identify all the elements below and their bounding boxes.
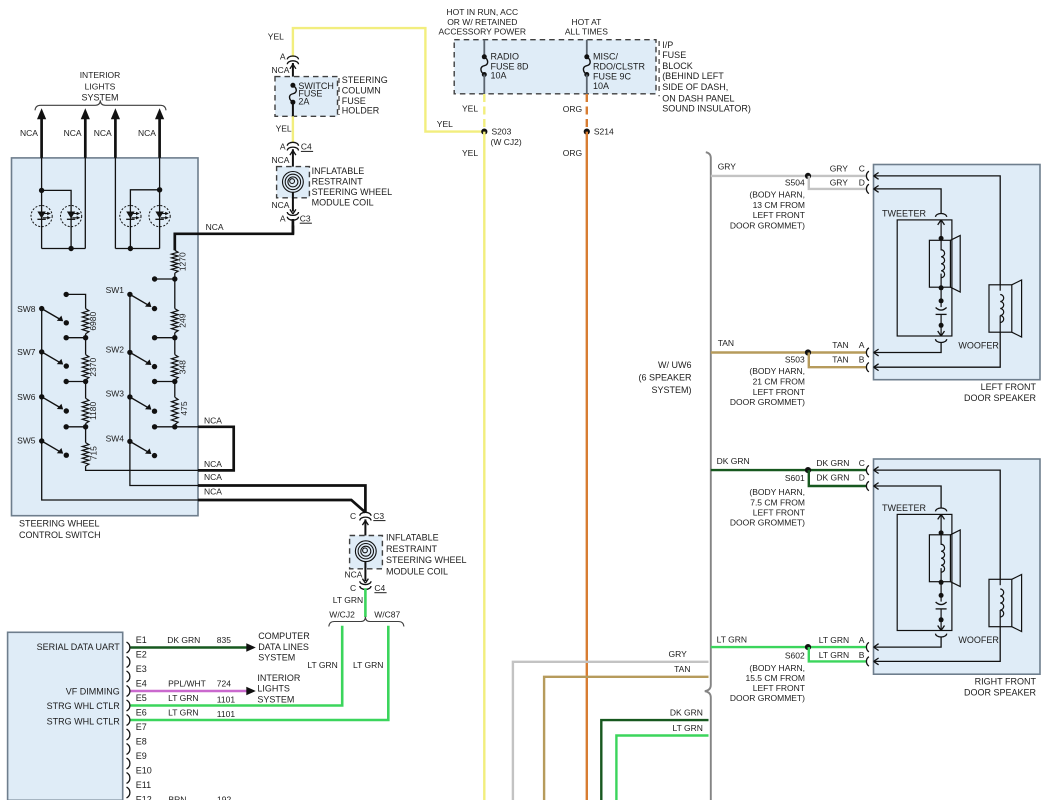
svg-text:2A: 2A <box>298 96 309 106</box>
svg-text:DOOR GROMMET): DOOR GROMMET) <box>730 220 805 230</box>
svg-text:NCA: NCA <box>271 155 289 165</box>
node tap row 1180/715 <box>85 424 87 427</box>
svg-text:E6: E6 <box>136 708 147 718</box>
svg-text:(BEHIND LEFT: (BEHIND LEFT <box>662 71 724 81</box>
pin B connector <box>866 363 868 372</box>
svg-text:E12: E12 <box>136 795 152 800</box>
svg-text:VF DIMMING: VF DIMMING <box>66 687 120 697</box>
svg-text:ORG: ORG <box>563 148 582 158</box>
svg-text:DATA LINES: DATA LINES <box>258 642 309 652</box>
wire top rail to LED2 <box>42 190 72 248</box>
svg-text:LEFT FRONT: LEFT FRONT <box>981 382 1037 392</box>
resistor 249 <box>174 279 176 309</box>
wire resistor 1270 to tap row <box>174 273 176 279</box>
svg-text:BLOCK: BLOCK <box>662 61 693 71</box>
wire LT GRN feed <box>616 736 708 800</box>
svg-text:S503: S503 <box>785 354 805 364</box>
svg-text:1101: 1101 <box>217 695 236 705</box>
wire ORG fuse 9C to S214 (dashed) <box>586 94 588 129</box>
svg-text:LEFT FRONT: LEFT FRONT <box>753 387 805 397</box>
svg-text:OR W/ RETAINED: OR W/ RETAINED <box>447 17 517 27</box>
wire arrow to interior lights system 1 <box>40 118 43 158</box>
wire TAN to pin B <box>809 353 867 368</box>
svg-text:RIGHT FRONT: RIGHT FRONT <box>975 676 1037 686</box>
wire LED pair 2 feed <box>159 158 161 249</box>
svg-text:LIGHTS: LIGHTS <box>85 82 116 92</box>
pin E6 <box>127 715 130 726</box>
svg-text:NCA: NCA <box>271 200 289 210</box>
wire LT GRN to pin B <box>809 647 867 661</box>
svg-text:STRG WHL CTLR: STRG WHL CTLR <box>47 701 121 711</box>
switch SW4 <box>127 439 132 444</box>
svg-text:A: A <box>859 635 865 645</box>
coil 2 spiral (inflatable restraint steering wheel module coil) <box>355 541 376 562</box>
wire pin D to tweeter top <box>874 486 942 509</box>
svg-text:13 CM FROM: 13 CM FROM <box>753 200 805 210</box>
svg-text:CONTROL SWITCH: CONTROL SWITCH <box>19 530 101 540</box>
svg-text:10A: 10A <box>593 81 609 91</box>
svg-text:DK GRN: DK GRN <box>816 473 849 483</box>
svg-text:C: C <box>350 511 356 521</box>
wire TAN feed <box>544 677 708 800</box>
svg-text:835: 835 <box>217 635 231 645</box>
svg-text:C4: C4 <box>301 142 312 152</box>
node junction LED1 top <box>39 188 44 193</box>
svg-text:SW2: SW2 <box>106 345 125 355</box>
svg-text:2370: 2370 <box>88 357 98 376</box>
fuse SWITCH FUSE 2A <box>290 83 295 88</box>
wire NCA from C3 into switch box <box>175 226 293 251</box>
svg-text:NCA: NCA <box>64 128 82 138</box>
pin E7 <box>127 729 130 740</box>
svg-text:TAN: TAN <box>718 338 734 348</box>
capacitor (tweeter crossover) <box>940 595 942 601</box>
node tap row 2370/1180 <box>85 380 87 382</box>
connector C4 (coil 1) <box>287 142 298 145</box>
wire pin A to tweeter bottom <box>874 637 942 647</box>
svg-text:192: 192 <box>217 795 231 800</box>
pin A connector <box>866 348 868 357</box>
svg-text:D: D <box>859 178 865 188</box>
svg-text:STRG WHL CTLR: STRG WHL CTLR <box>47 716 121 726</box>
splice S503 <box>805 349 811 355</box>
node capacitor bottom <box>939 617 944 622</box>
wire YEL fuse holder to C4 <box>292 102 294 116</box>
dashed separator fuse holder <box>338 78 340 115</box>
svg-text:NCA: NCA <box>138 128 156 138</box>
svg-text:LT GRN: LT GRN <box>333 595 363 605</box>
pin A connector <box>866 642 868 651</box>
svg-text:(BODY HARN,: (BODY HARN, <box>749 487 805 497</box>
node tweeter top <box>939 236 944 241</box>
node capacitor bottom <box>939 323 944 328</box>
svg-text:SYSTEM: SYSTEM <box>257 694 294 704</box>
svg-text:348: 348 <box>177 360 187 374</box>
wire coil 1 to C3 <box>292 192 294 211</box>
svg-text:COMPUTER: COMPUTER <box>258 631 310 641</box>
svg-text:(BODY HARN,: (BODY HARN, <box>749 189 805 199</box>
svg-text:E4: E4 <box>136 679 147 689</box>
resistor 475 <box>174 382 176 398</box>
wire DK GRN to pin D <box>809 470 867 486</box>
svg-text:LT GRN: LT GRN <box>168 693 198 703</box>
svg-text:YEL: YEL <box>276 124 292 134</box>
svg-text:I/P: I/P <box>662 40 673 50</box>
svg-text:LT GRN: LT GRN <box>168 708 198 718</box>
svg-text:STEERING: STEERING <box>342 75 388 85</box>
resistor 715 <box>85 427 87 443</box>
node junction LED4 top <box>157 187 162 192</box>
pin E2 <box>127 657 130 668</box>
svg-text:YEL: YEL <box>437 119 453 129</box>
inflatable restraint coil 2 box <box>350 536 383 569</box>
pin D connector <box>866 184 868 193</box>
svg-text:475: 475 <box>179 401 189 415</box>
svg-text:E9: E9 <box>136 751 147 761</box>
wire NCA SW1-4 rail to C3 <box>198 486 365 513</box>
svg-text:249: 249 <box>177 313 187 327</box>
LED 3 <box>120 206 141 227</box>
svg-text:W/CJ2: W/CJ2 <box>329 609 355 619</box>
connector C4 (coil 2) <box>360 581 371 584</box>
node tweeter driver bottom <box>939 285 944 290</box>
LED 1 <box>31 206 52 227</box>
capacitor (tweeter crossover) <box>940 301 942 307</box>
svg-text:SW8: SW8 <box>17 304 36 314</box>
tweeter driver <box>929 240 950 287</box>
svg-text:NCA: NCA <box>344 570 362 580</box>
brace over interior lights arrows <box>35 100 166 110</box>
resistor 1180 <box>85 382 87 399</box>
svg-text:W/C87: W/C87 <box>374 609 400 619</box>
svg-text:INFLATABLE: INFLATABLE <box>386 532 439 542</box>
wire arrow to interior lights system 3 <box>114 118 117 158</box>
svg-text:LEFT FRONT: LEFT FRONT <box>753 683 805 693</box>
wire LT GRN C4 to brace <box>364 588 367 617</box>
pin E8 <box>127 744 130 755</box>
svg-text:NCA: NCA <box>94 128 112 138</box>
woofer driver <box>989 579 1012 626</box>
svg-text:E2: E2 <box>136 650 147 660</box>
svg-text:NCA: NCA <box>20 128 38 138</box>
wire GRY feed <box>513 662 709 800</box>
wire pin C to woofer top <box>874 470 1001 579</box>
svg-text:A: A <box>280 51 286 61</box>
svg-text:NCA: NCA <box>271 65 289 75</box>
svg-text:S601: S601 <box>785 473 805 483</box>
node tap row 1270/249 <box>155 278 175 280</box>
node tweeter driver bottom <box>939 580 944 585</box>
dashed separator I/P fuse block <box>658 41 660 96</box>
wire C3 into coil 2 <box>364 519 366 540</box>
svg-text:TAN: TAN <box>832 355 848 365</box>
svg-text:B: B <box>859 355 865 365</box>
left front door speaker box <box>874 165 1041 380</box>
node capacitor top <box>939 298 944 303</box>
svg-text:DOOR SPEAKER: DOOR SPEAKER <box>964 688 1037 698</box>
pin D connector <box>866 481 868 490</box>
wire pin C to woofer top <box>874 176 1001 285</box>
inflatable restraint coil 1 box <box>292 149 294 171</box>
svg-text:(BODY HARN,: (BODY HARN, <box>749 663 805 673</box>
fuse RADIO FUSE 8D 10A <box>483 40 485 57</box>
svg-text:(BODY HARN,: (BODY HARN, <box>749 366 805 376</box>
svg-text:YEL: YEL <box>462 148 478 158</box>
wire SW5-SW8 pivot rail <box>42 309 198 500</box>
pin E11 <box>127 787 130 798</box>
wire pin B to woofer bottom <box>874 627 1001 662</box>
svg-text:RDO/CLSTR: RDO/CLSTR <box>593 61 646 71</box>
tweeter top connector arc <box>936 508 947 511</box>
svg-text:SOUND INSULATOR): SOUND INSULATOR) <box>662 104 751 114</box>
splice S504 <box>805 173 811 179</box>
svg-text:YEL: YEL <box>268 31 284 41</box>
svg-text:E11: E11 <box>136 780 151 790</box>
resistor 6980 <box>82 309 89 334</box>
wire SW1-SW4 pivot rail <box>130 294 198 485</box>
svg-text:GRY: GRY <box>718 162 737 172</box>
wire DK GRN 835 serial data <box>131 646 247 649</box>
svg-text:SYSTEM): SYSTEM) <box>651 385 691 395</box>
wire LED pair 1 bottom rail <box>42 248 86 250</box>
svg-text:TWEETER: TWEETER <box>882 503 926 513</box>
svg-text:S602: S602 <box>785 650 805 660</box>
wire LT GRN to pin A <box>711 646 867 648</box>
tweeter frame <box>897 220 952 336</box>
svg-text:SW5: SW5 <box>17 435 36 445</box>
wire pin A to tweeter bottom <box>874 343 942 353</box>
wire LT GRN 1101 E6 to W/C87 <box>131 626 389 720</box>
svg-text:S214: S214 <box>594 127 614 137</box>
svg-text:NCA: NCA <box>204 486 222 496</box>
svg-text:NCA: NCA <box>204 415 222 425</box>
svg-text:21 CM FROM: 21 CM FROM <box>753 377 805 387</box>
svg-text:DK GRN: DK GRN <box>717 456 750 466</box>
svg-text:E7: E7 <box>136 722 147 732</box>
svg-text:LEFT FRONT: LEFT FRONT <box>753 507 805 517</box>
svg-text:BRN: BRN <box>169 795 187 800</box>
svg-text:DK GRN: DK GRN <box>816 458 849 468</box>
node tap row 249/348 <box>174 333 176 338</box>
node top tap left ladder <box>63 292 68 297</box>
wire NCA loop out and back (475 row) <box>198 427 234 471</box>
tweeter frame <box>897 514 952 630</box>
switch SW3 <box>127 394 132 399</box>
wire resistor 715 to NCA return <box>86 466 198 470</box>
svg-text:B: B <box>859 650 865 660</box>
I/P fuse block box <box>454 40 656 94</box>
connector C3 (coil 2) <box>360 512 371 515</box>
switch SW7 <box>39 349 44 354</box>
pin E5 <box>127 700 130 711</box>
svg-text:YEL: YEL <box>462 104 478 114</box>
pin B connector <box>866 657 868 666</box>
wire YEL S203 down <box>483 132 485 800</box>
svg-text:C: C <box>350 583 356 593</box>
svg-text:MISC/: MISC/ <box>593 51 619 61</box>
svg-text:E5: E5 <box>136 693 147 703</box>
svg-text:NCA: NCA <box>206 222 224 232</box>
connector C3 (coil 1) <box>287 212 298 215</box>
svg-text:WOOFER: WOOFER <box>958 635 999 645</box>
tweeter bottom arrow and arc <box>940 325 942 336</box>
svg-text:DK GRN: DK GRN <box>167 635 200 645</box>
svg-text:1101: 1101 <box>217 709 236 719</box>
svg-text:RESTRAINT: RESTRAINT <box>386 544 438 554</box>
svg-text:C3: C3 <box>373 511 384 521</box>
svg-text:WOOFER: WOOFER <box>958 340 999 350</box>
svg-text:A: A <box>280 142 286 152</box>
svg-text:W/ UW6: W/ UW6 <box>658 360 692 370</box>
svg-text:MODULE COIL: MODULE COIL <box>386 567 448 577</box>
wire YEL fuse 8D to S203 (dashed) <box>483 94 485 129</box>
svg-text:E1: E1 <box>136 635 147 645</box>
svg-text:LIGHTS: LIGHTS <box>257 684 290 694</box>
svg-text:LT GRN: LT GRN <box>717 634 747 644</box>
svg-text:COLUMN: COLUMN <box>342 86 381 96</box>
svg-text:(6 SPEAKER: (6 SPEAKER <box>638 373 692 383</box>
svg-text:STEERING WHEEL: STEERING WHEEL <box>19 519 100 529</box>
svg-text:715: 715 <box>89 446 99 460</box>
wire LT GRN 1101 E5 to W/CJ2 <box>131 626 343 706</box>
svg-text:GRY: GRY <box>830 163 849 173</box>
node tweeter top <box>939 530 944 535</box>
svg-text:HOLDER: HOLDER <box>342 106 380 116</box>
svg-text:D: D <box>859 473 865 483</box>
woofer driver <box>989 285 1012 332</box>
svg-text:A: A <box>859 340 865 350</box>
coil 1 spiral (inflatable restraint steering wheel module coil) <box>283 172 304 193</box>
svg-text:C3: C3 <box>300 213 311 223</box>
steering wheel control switch box <box>12 158 199 516</box>
node tap row 6980/2370 <box>85 334 87 338</box>
svg-text:DOOR SPEAKER: DOOR SPEAKER <box>964 393 1037 403</box>
pin E3 <box>127 671 130 682</box>
pin C connector <box>866 465 868 474</box>
pin C connector <box>866 171 868 180</box>
wire LED pair 1 return <box>84 158 86 249</box>
wire YEL from steering column top to S203 <box>293 28 482 132</box>
resistor 348 <box>174 338 176 355</box>
switch SW5 <box>39 438 44 443</box>
tweeter driver <box>929 535 950 582</box>
svg-text:C: C <box>859 163 865 173</box>
wire arrow to interior lights system 2 <box>84 118 87 158</box>
wire TAN to pin A <box>711 351 867 353</box>
LED 4 <box>149 206 170 227</box>
giant brace 6-speaker harness <box>705 152 711 800</box>
tweeter bottom arrow and arc <box>940 620 942 631</box>
wire LED pair 2 return <box>114 158 116 249</box>
svg-text:HOT AT: HOT AT <box>571 17 601 27</box>
svg-text:1180: 1180 <box>88 401 98 420</box>
svg-text:6980: 6980 <box>88 311 98 330</box>
svg-text:ORG: ORG <box>563 104 582 114</box>
LED 2 <box>61 206 82 227</box>
svg-text:C4: C4 <box>374 583 385 593</box>
svg-text:SW1: SW1 <box>106 285 125 295</box>
svg-text:HOT IN RUN, ACC: HOT IN RUN, ACC <box>446 7 518 17</box>
node junction LED3 bottom <box>128 246 133 251</box>
svg-text:PPL/WHT: PPL/WHT <box>168 679 206 689</box>
wire arrow to interior lights system 4 <box>158 118 161 158</box>
wire GRY to pin D <box>809 176 867 189</box>
wire DK GRN to pin C <box>711 469 867 471</box>
resistor 2370 <box>85 338 87 355</box>
wire LED pair 1 feed <box>41 158 43 249</box>
wire into switch fuse <box>292 63 294 85</box>
svg-text:SIDE OF DASH,: SIDE OF DASH, <box>662 82 728 92</box>
svg-text:S504: S504 <box>785 178 805 188</box>
svg-text:SERIAL DATA UART: SERIAL DATA UART <box>37 642 121 652</box>
brace W/CJ2 | W/C87 <box>329 617 404 627</box>
connector A top of fuse holder <box>287 56 298 59</box>
svg-text:ACCESSORY POWER: ACCESSORY POWER <box>439 27 527 37</box>
svg-text:E3: E3 <box>136 664 147 674</box>
svg-text:INTERIOR: INTERIOR <box>257 673 301 683</box>
wire pin D to tweeter top <box>874 189 942 214</box>
svg-text:LT GRN: LT GRN <box>353 660 383 670</box>
svg-text:LT GRN: LT GRN <box>673 723 703 733</box>
svg-text:DOOR GROMMET): DOOR GROMMET) <box>730 693 805 703</box>
switch SW6 <box>39 394 44 399</box>
svg-text:ALL TIMES: ALL TIMES <box>565 27 608 37</box>
svg-text:INFLATABLE: INFLATABLE <box>312 166 365 176</box>
radio connector box <box>8 632 123 800</box>
wire DK GRN feed <box>601 720 708 800</box>
svg-text:FUSE: FUSE <box>662 50 686 60</box>
svg-text:S203: S203 <box>492 127 512 137</box>
wire ORG S214 down <box>586 132 588 800</box>
pin E4 <box>127 686 130 697</box>
switch SW8 <box>39 306 44 311</box>
splice S203 (W CJ2) <box>481 129 487 135</box>
svg-text:15.5 CM FROM: 15.5 CM FROM <box>745 673 805 683</box>
wire PPL/WHT 724 vf dimming <box>131 690 247 693</box>
svg-text:E8: E8 <box>136 737 147 747</box>
switch SW2 <box>127 350 132 355</box>
svg-text:E10: E10 <box>136 766 152 776</box>
svg-text:LT GRN: LT GRN <box>819 635 849 645</box>
node junction LED2 bottom <box>68 246 73 251</box>
svg-text:RADIO: RADIO <box>491 51 520 61</box>
svg-text:C: C <box>859 458 865 468</box>
svg-text:DK GRN: DK GRN <box>670 708 703 718</box>
svg-text:SYSTEM: SYSTEM <box>258 652 295 662</box>
pin E1 <box>127 642 130 653</box>
svg-text:STEERING WHEEL: STEERING WHEEL <box>386 555 467 565</box>
svg-text:TAN: TAN <box>832 340 848 350</box>
svg-text:MODULE COIL: MODULE COIL <box>312 197 374 207</box>
resistor 1270 <box>172 250 179 273</box>
svg-text:SW3: SW3 <box>106 389 125 399</box>
node capacitor top <box>939 593 944 598</box>
splice S214 <box>584 129 590 135</box>
wire pin B to woofer bottom <box>874 332 1001 367</box>
fuse MISC/RDO/CLSTR FUSE 9C 10A <box>586 40 588 57</box>
svg-text:DOOR GROMMET): DOOR GROMMET) <box>730 397 805 407</box>
right front door speaker box <box>874 459 1041 674</box>
steering column fuse holder box <box>275 77 338 117</box>
svg-text:NCA: NCA <box>204 459 222 469</box>
svg-text:SW6: SW6 <box>17 392 36 402</box>
wire C3 down (joins NCA heavy wire) <box>292 219 295 234</box>
svg-text:TWEETER: TWEETER <box>882 208 926 218</box>
switch SW1 <box>127 292 132 297</box>
svg-text:7.5 CM FROM: 7.5 CM FROM <box>750 497 805 507</box>
svg-text:DOOR GROMMET): DOOR GROMMET) <box>730 517 805 527</box>
splice S602 <box>805 644 811 650</box>
